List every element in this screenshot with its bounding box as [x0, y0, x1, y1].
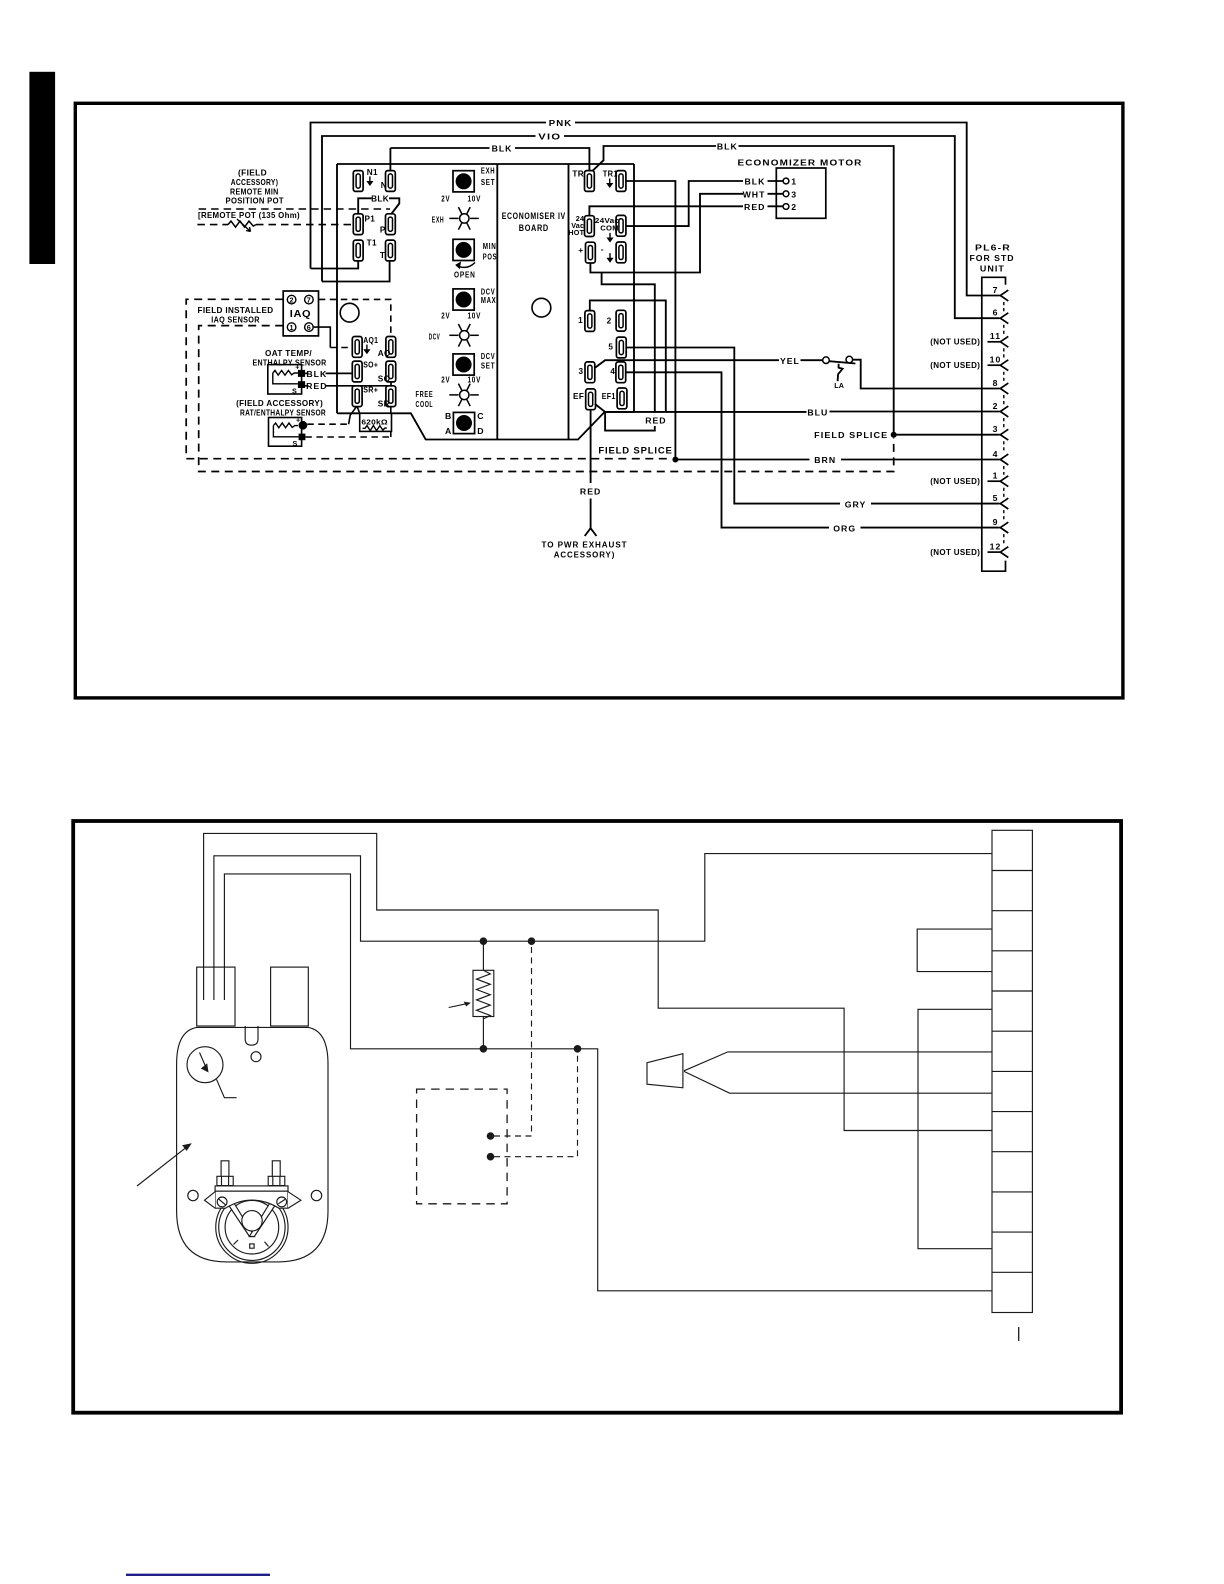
remote pot dashed wire bottom: [197, 224, 228, 226]
motor pin 2 contact: [783, 204, 789, 210]
actuator body: [177, 1027, 328, 1262]
svg-text:12: 12: [990, 542, 1002, 552]
actuator cable gland right: [271, 967, 309, 1026]
mounting hole left: [188, 1190, 198, 1200]
svg-text:FIELD SPLICE: FIELD SPLICE: [814, 430, 888, 440]
terminal AQ: [386, 337, 396, 358]
svg-text:+: +: [578, 246, 583, 255]
svg-text:BLK: BLK: [492, 144, 513, 154]
wire EF to power exhaust: [590, 410, 592, 529]
terminal EF1: [617, 388, 627, 409]
clamp center square: [250, 1244, 254, 1248]
svg-text:RED: RED: [645, 416, 666, 426]
PL6 pin 7 contact: [1000, 290, 1008, 301]
terminal 3: [585, 362, 595, 383]
svg-text:A: A: [445, 426, 452, 436]
terminal SO: [386, 361, 396, 382]
dashed wire to AQ1: [330, 347, 352, 349]
svg-text:6: 6: [993, 308, 999, 318]
dashed wire dot2 to wire C: [494, 1049, 578, 1157]
motor pin 1 contact: [783, 178, 789, 184]
position indicator dial: [187, 1047, 223, 1083]
svg-text:BOARD: BOARD: [519, 223, 549, 233]
switch contact circle right: [846, 356, 853, 363]
svg-text:FIELD SPLICE: FIELD SPLICE: [598, 446, 672, 456]
terminal 4: [616, 362, 626, 383]
svg-text:1: 1: [993, 471, 999, 481]
control box dot 2: [487, 1153, 495, 1161]
small hole below notch: [251, 1052, 261, 1062]
pot MIN POS knob: [453, 239, 474, 260]
PL6 pin 5 contact: [1000, 498, 1008, 509]
svg-text:1: 1: [578, 316, 583, 325]
svg-text:P1: P1: [365, 214, 376, 223]
frame of upper wiring diagram: [75, 103, 1123, 698]
svg-text:8: 8: [993, 378, 999, 388]
jumper strip pins 5-11: [918, 1009, 992, 1248]
actuator top notch: [245, 1026, 258, 1045]
svg-text:2: 2: [607, 317, 612, 326]
svg-text:HOT: HOT: [568, 228, 584, 237]
pot EXH SET knob: [453, 171, 474, 192]
wire EF1-side RED elbow from plus line: [595, 273, 655, 431]
svg-text:2: 2: [791, 202, 797, 212]
svg-text:EXH: EXH: [481, 166, 495, 176]
frame of lower wiring diagram: [73, 821, 1121, 1413]
svg-text:IAQ SENSOR: IAQ SENSOR: [211, 316, 260, 325]
clamp screw right: [277, 1197, 287, 1207]
board circle middle: [532, 298, 551, 317]
RAT sensor bottom loop: [273, 426, 298, 437]
wire terminal 3 to YEL switch: [594, 360, 822, 368]
clamp bolt left: [221, 1161, 229, 1177]
PL6 body dashed edge seg: [1003, 395, 1005, 405]
svg-text:COOL: COOL: [416, 399, 434, 409]
dashed wire dot1 to wire B: [494, 941, 532, 1136]
board divider 2: [568, 164, 570, 439]
svg-text:IAQ: IAQ: [290, 308, 312, 320]
svg-text:2V: 2V: [441, 375, 450, 385]
clamp screw left: [217, 1197, 227, 1207]
svg-text:SO+: SO+: [363, 361, 378, 370]
probe body to strip pins 6-7: [684, 1052, 992, 1093]
RAT junction dot: [299, 421, 308, 430]
620k zigzag: [363, 426, 387, 431]
svg-text:RAT/ENTHALPY SENSOR: RAT/ENTHALPY SENSOR: [240, 408, 326, 417]
junction dot dashed branch 2: [574, 1045, 582, 1053]
wire PNK bus: [311, 123, 1000, 296]
svg-text:PNK: PNK: [549, 118, 573, 128]
svg-text:ENTHALPY SENSOR: ENTHALPY SENSOR: [253, 359, 327, 368]
terminal TR: [585, 171, 595, 192]
clamp plate notches: [234, 1240, 269, 1247]
svg-text:VIO: VIO: [538, 132, 561, 142]
resistor zigzag: [477, 970, 491, 1019]
svg-text:C: C: [477, 411, 484, 421]
RAT junction square: [299, 434, 306, 441]
wire RED to SO: [305, 382, 391, 386]
wire VIO riser to T: [322, 261, 390, 282]
svg-text:11: 11: [990, 331, 1001, 341]
terminal 1: [585, 311, 595, 332]
svg-text:-: -: [601, 245, 604, 254]
resistor leads: [482, 941, 484, 1049]
svg-text:REMOTE MIN: REMOTE MIN: [230, 188, 279, 197]
svg-text:[REMOTE POT (135 Ohm): [REMOTE POT (135 Ohm): [198, 211, 300, 220]
RAT sensor resistor: [273, 423, 298, 428]
inner field dashed box: [199, 326, 894, 472]
LED FREE COOL: [449, 384, 479, 407]
PL6 pin 11 contact: [988, 341, 1001, 343]
svg-text:5: 5: [608, 343, 613, 352]
svg-text:D: D: [477, 426, 484, 436]
wire continuation chevron: [585, 528, 597, 536]
remote pot dashed wire top: [199, 208, 390, 210]
svg-text:P: P: [380, 225, 386, 234]
control box dot 1: [487, 1132, 495, 1140]
PL6 pin 3 contact: [1000, 429, 1008, 440]
svg-text:ACCESSORY): ACCESSORY): [554, 549, 616, 559]
svg-text:S: S: [293, 439, 298, 448]
svg-text:TR: TR: [572, 169, 584, 178]
svg-text:(NOT USED): (NOT USED): [930, 548, 980, 557]
svg-text:YEL: YEL: [780, 356, 800, 366]
wire SR to 620k: [390, 407, 392, 414]
wire BLU to pin 2: [605, 411, 1000, 413]
svg-text:(NOT USED): (NOT USED): [930, 477, 980, 486]
svg-text:SR: SR: [378, 399, 390, 408]
jumper strip pins 3-4: [917, 929, 992, 972]
dashed wire IAQ pin7 to AQ: [319, 299, 391, 336]
svg-text:2: 2: [289, 295, 293, 304]
board circle left: [340, 303, 359, 322]
svg-text:(FIELD ACCESSORY): (FIELD ACCESSORY): [236, 399, 323, 408]
clamp bolt right: [272, 1161, 280, 1177]
economizer board outline: [337, 164, 634, 440]
terminal 5: [616, 337, 626, 358]
svg-text:SET: SET: [481, 360, 495, 370]
PL6 body dashed edge seg: [1003, 510, 1005, 521]
svg-text:BRN: BRN: [814, 455, 836, 465]
svg-text:ECONOMISER IV: ECONOMISER IV: [502, 211, 566, 221]
svg-text:2: 2: [993, 401, 999, 411]
OPEN arrow: [457, 263, 476, 268]
svg-text:S: S: [292, 386, 297, 395]
svg-text:(NOT USED): (NOT USED): [930, 361, 980, 370]
IAQ pin 2: [287, 295, 296, 304]
arrow under minus: [606, 253, 613, 263]
svg-text:(NOT USED): (NOT USED): [930, 338, 980, 347]
svg-text:AQ: AQ: [378, 349, 391, 358]
pot A-B-C-D knob: [453, 412, 474, 433]
terminal 24VacCOM: [616, 215, 626, 236]
mounting hole right: [311, 1190, 321, 1200]
svg-text:1: 1: [791, 177, 797, 187]
620k resistor box: [360, 413, 392, 431]
field splice dot lower: [672, 457, 678, 463]
svg-text:3: 3: [578, 367, 583, 376]
dashed control box: [417, 1089, 508, 1204]
economizer motor box: [776, 168, 826, 218]
wire SR+ to 620k: [357, 407, 360, 414]
clamp wheel inner ring: [219, 1194, 285, 1260]
arrow under N1: [366, 176, 373, 186]
svg-text:ACCESSORY): ACCESSORY): [231, 178, 279, 187]
svg-text:RED: RED: [580, 487, 601, 497]
svg-text:WHT: WHT: [743, 190, 766, 200]
LED EXH: [449, 207, 479, 230]
OAT sensor box: [268, 365, 302, 394]
svg-text:LA: LA: [834, 381, 844, 390]
PL6 pin 9 contact: [1000, 522, 1008, 533]
terminal SO+: [352, 361, 362, 382]
wire actuator lead 2 to strip pin 1: [214, 854, 992, 1000]
wire PNK riser to T1: [311, 261, 359, 269]
dial leader line: [217, 1079, 237, 1097]
svg-text:2V: 2V: [441, 193, 450, 203]
terminal N: [386, 171, 396, 192]
terminal strip: [992, 830, 1032, 1312]
svg-text:BLK: BLK: [745, 177, 766, 187]
svg-text:BLK: BLK: [306, 369, 327, 379]
svg-text:RED: RED: [306, 381, 327, 391]
svg-text:10V: 10V: [468, 375, 482, 385]
svg-text:T1: T1: [367, 238, 377, 247]
svg-text:N: N: [381, 181, 387, 190]
wire plus to motor WHT: [590, 194, 783, 273]
svg-text:BLK: BLK: [371, 194, 389, 203]
outer field dashed box: [186, 299, 670, 458]
wire BRN from splice to pin 4: [675, 459, 999, 461]
clamp top bar: [215, 1186, 288, 1191]
PL6 body dashed edge seg: [1003, 488, 1005, 497]
svg-text:4: 4: [610, 367, 615, 376]
svg-text:10V: 10V: [468, 311, 482, 321]
OAT junction square BLK: [298, 370, 305, 377]
wire VIO bus: [322, 136, 1000, 318]
PL6 body dashed edge seg: [1003, 418, 1005, 428]
board divider 1: [496, 164, 498, 440]
tick below strip: [1018, 1327, 1020, 1341]
wire actuator lead 3 to strip pin 12: [224, 874, 992, 1291]
PL6 body dashed edge seg: [1003, 466, 1005, 475]
svg-text:RED: RED: [744, 202, 765, 212]
PL6 pin 6 contact: [1000, 313, 1008, 324]
svg-text:FOR STD: FOR STD: [970, 253, 1015, 263]
svg-text:DCV: DCV: [429, 332, 441, 342]
wire BLK jumper P1-P: [358, 198, 399, 214]
svg-text:POSITION POT: POSITION POT: [226, 197, 284, 206]
svg-text:620kΩ: 620kΩ: [361, 417, 388, 426]
svg-text:10V: 10V: [468, 193, 482, 203]
svg-text:BLK: BLK: [717, 141, 738, 151]
svg-text:4: 4: [993, 449, 999, 459]
wire BLK bus left: [390, 148, 589, 171]
terminal P1: [353, 214, 363, 235]
svg-text:3: 3: [791, 190, 797, 200]
junction dot resistor bottom: [480, 1045, 488, 1053]
svg-text:PL6-R: PL6-R: [975, 243, 1011, 253]
svg-text:SET: SET: [481, 177, 495, 187]
wire terminal 5 to GRY pin 5: [626, 348, 1000, 504]
svg-text:POS: POS: [483, 252, 497, 262]
svg-text:5: 5: [993, 493, 999, 503]
svg-text:OPEN: OPEN: [454, 270, 476, 280]
arrow under TR1: [606, 178, 613, 188]
svg-text:GRY: GRY: [845, 499, 867, 509]
clamp nut left: [217, 1176, 233, 1185]
dashed wire RAT+ to SR+: [307, 423, 348, 425]
wire riser SR box: [390, 431, 392, 437]
clamp V strap right: [249, 1202, 276, 1237]
svg-text:TR1: TR1: [603, 169, 618, 178]
wire HOT to motor RED: [589, 206, 783, 216]
svg-text:B: B: [445, 411, 452, 421]
arrow pointing at resistor: [449, 1003, 468, 1007]
svg-text:ECONOMIZER MOTOR: ECONOMIZER MOTOR: [738, 158, 863, 168]
PL6 pin 12 contact: [988, 551, 1001, 553]
terminal EF: [586, 389, 596, 410]
svg-text:7: 7: [307, 295, 311, 304]
svg-text:UNIT: UNIT: [980, 264, 1005, 274]
clamp bracket: [215, 1191, 288, 1208]
svg-text:COM: COM: [600, 224, 619, 233]
IAQ pin 7: [305, 295, 314, 304]
PL6 pin 8 contact: [1000, 383, 1008, 394]
svg-text:(FIELD: (FIELD: [238, 169, 267, 178]
resistor body: [473, 970, 494, 1016]
switch thermal element: [838, 364, 843, 382]
terminal +: [586, 242, 596, 263]
RAT sensor box: [269, 418, 302, 447]
svg-text:EXH: EXH: [432, 215, 445, 225]
svg-text:MIN: MIN: [483, 241, 497, 251]
terminal -: [616, 242, 626, 263]
field splice dot upper: [891, 432, 897, 438]
IAQ sensor box: [283, 291, 318, 336]
arrow under AQ1: [363, 345, 370, 355]
svg-text:FREE: FREE: [416, 389, 434, 399]
PL6 connector spine: [982, 277, 1006, 571]
probe bell: [647, 1054, 683, 1088]
OAT sensor bottom loop: [273, 373, 298, 384]
PL6 body dashed edge seg: [1003, 534, 1005, 546]
clamp wing left: [205, 1192, 216, 1209]
black page margin tab: [29, 72, 55, 264]
arrow under COM: [606, 233, 613, 243]
svg-text:OAT TEMP/: OAT TEMP/: [265, 349, 312, 358]
field splice wire to pin 3: [894, 434, 1000, 436]
terminal TR1: [616, 171, 626, 192]
OAT sensor resistor: [273, 370, 298, 375]
wire terminal 1 riser: [590, 300, 666, 411]
svg-text:1: 1: [289, 323, 293, 332]
svg-text:AQ1: AQ1: [363, 336, 378, 345]
junction dot dashed branch top: [528, 937, 536, 945]
svg-text:MAX: MAX: [481, 295, 497, 305]
switch contact circle left: [823, 357, 830, 364]
clamp hub: [242, 1211, 262, 1231]
terminal N1: [353, 171, 363, 192]
svg-text:2V: 2V: [441, 311, 450, 321]
junction dot resistor top: [480, 937, 488, 945]
actuator cable gland left: [197, 967, 235, 1026]
wire BLK bus right: [593, 146, 894, 435]
wire actuator lead 1 to strip pin 8: [204, 833, 992, 1130]
terminal 24VacHOT: [585, 216, 595, 237]
clamp nut right: [268, 1176, 285, 1185]
PL6 body dashed edge seg: [1003, 348, 1005, 358]
svg-text:TO PWR EXHAUST: TO PWR EXHAUST: [542, 539, 628, 549]
PL6 body dashed edge seg: [1003, 302, 1005, 312]
dial arrow: [200, 1053, 207, 1069]
dashed wire RAT S to SR: [305, 436, 390, 438]
svg-text:N1: N1: [367, 168, 378, 177]
blue footer rule: [126, 1574, 270, 1576]
wire BLK to SO+: [305, 372, 352, 374]
svg-text:SO: SO: [378, 375, 391, 384]
svg-text:EF1: EF1: [602, 392, 616, 401]
terminal 2: [616, 310, 626, 331]
svg-text:10: 10: [990, 355, 1002, 365]
svg-text:7: 7: [993, 285, 999, 295]
svg-text:BLU: BLU: [807, 407, 828, 417]
wire switch to pin 8: [853, 360, 1000, 389]
svg-text:T: T: [380, 251, 385, 260]
clamp inner plate: [225, 1200, 279, 1254]
PL6 body dashed edge seg: [1003, 441, 1005, 453]
LED DCV: [449, 324, 479, 347]
terminal AQ1: [352, 337, 362, 358]
terminal SR: [386, 386, 396, 407]
PL6 pin 10 contact: [988, 364, 1001, 366]
pot DCV SET knob: [453, 354, 474, 375]
svg-text:6: 6: [307, 323, 311, 332]
svg-text:3: 3: [993, 424, 999, 434]
terminal T: [386, 240, 396, 261]
motor pin 3 contact: [783, 191, 789, 197]
terminal T1: [353, 240, 363, 261]
svg-text:EF: EF: [573, 392, 584, 401]
wire terminal 4 to ORG pin 9: [625, 372, 999, 527]
terminal P: [386, 214, 396, 235]
PL6 body dashed edge seg: [1003, 325, 1005, 336]
pot DCV MAX knob: [453, 289, 474, 310]
PL6 body dashed edge seg: [1003, 372, 1005, 382]
switch blade LA: [829, 361, 855, 363]
wire riser to SR+: [349, 407, 357, 425]
wire COM to motor BLK: [626, 181, 783, 226]
PL6 pin 2 contact: [1000, 406, 1008, 417]
svg-text:9: 9: [993, 517, 999, 527]
clamp wheel outer: [216, 1191, 288, 1263]
IAQ pin 6: [305, 323, 314, 332]
clamp V strap left: [228, 1202, 255, 1237]
wire IAQ pin6 elbow: [313, 327, 330, 347]
terminal SR+: [352, 386, 362, 407]
svg-text:ORG: ORG: [833, 523, 856, 533]
PL6 pin 1 contact: [988, 480, 1001, 482]
OAT junction square RED: [298, 381, 305, 388]
svg-text:FIELD INSTALLED: FIELD INSTALLED: [198, 306, 274, 315]
pointing arrow at actuator: [137, 1147, 187, 1186]
IAQ pin 1: [287, 323, 296, 332]
wire TR1 to field splice BRN: [626, 181, 676, 457]
remote pot resistor symbol: [228, 221, 256, 227]
PL6 pin 4 contact: [1000, 454, 1008, 465]
clamp wing right: [288, 1192, 301, 1209]
